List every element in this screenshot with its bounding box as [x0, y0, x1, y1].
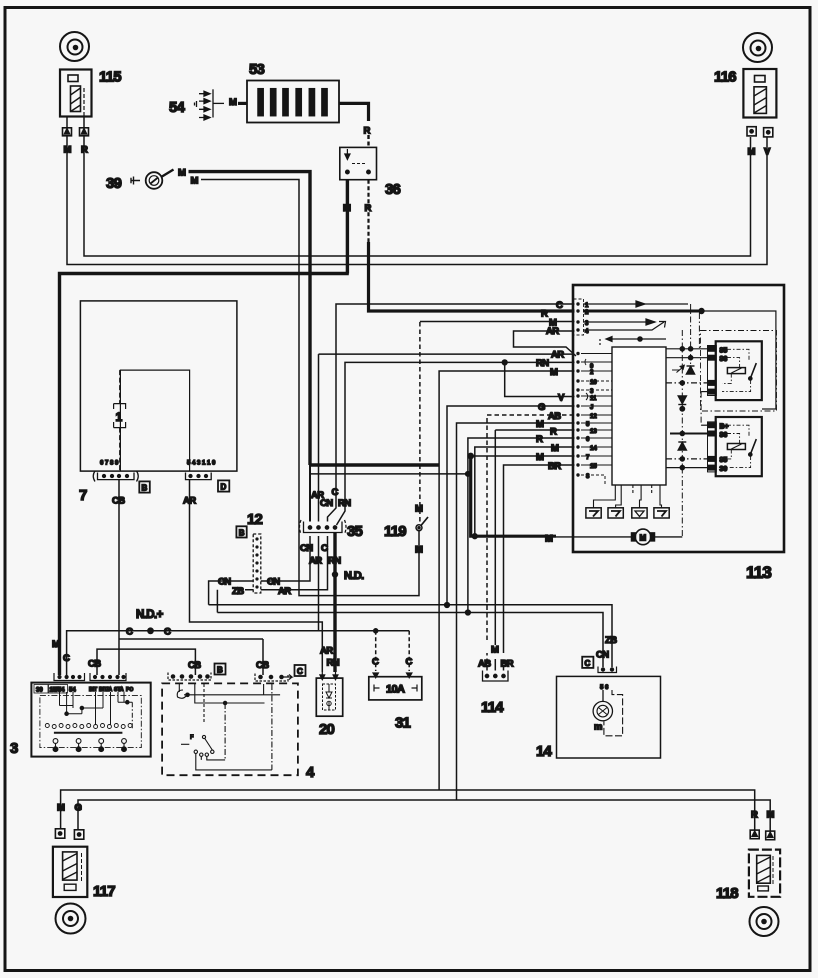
113 internal dash verticals: [682, 304, 701, 537]
multi-arrow symbol 54: [195, 89, 214, 120]
svg-text:CN: CN: [320, 498, 333, 509]
svg-text:RN: RN: [328, 556, 341, 567]
relay 2 pins: [708, 422, 717, 472]
lamp 116: [743, 69, 776, 118]
svg-text:M: M: [491, 645, 499, 656]
connector bracket 3pin C on 4: [255, 674, 292, 682]
wire 35 pin2 up to 113 AR input: [319, 354, 575, 521]
letter box D: [218, 480, 229, 491]
svg-text:86: 86: [720, 432, 728, 439]
svg-text:B: B: [217, 666, 223, 675]
IC bottom leads to sensors: [594, 485, 662, 508]
letter box C at 14: [582, 657, 593, 668]
svg-text:1: 1: [116, 410, 123, 424]
wire M into 53: [213, 102, 224, 104]
svg-text:N.D.+: N.D.+: [136, 609, 164, 621]
terminal labels inside 3: [34, 685, 68, 694]
svg-text:R: R: [751, 810, 758, 821]
inner notch of 7: [120, 370, 189, 471]
svg-text:117: 117: [93, 883, 115, 900]
svg-text:R: R: [550, 427, 557, 438]
113 input pins and numbers: [576, 302, 579, 476]
diode D1: [687, 366, 695, 374]
diode D2: [678, 442, 686, 450]
svg-text:53: 53: [249, 61, 265, 78]
svg-text:M: M: [229, 97, 237, 108]
connector pins under 115: [63, 128, 89, 136]
ignition switch 3: [31, 683, 150, 757]
pins into 31: [373, 673, 412, 678]
svg-text:M: M: [640, 534, 647, 543]
connector bracket 4pin on 3: [54, 673, 85, 681]
svg-text:M: M: [415, 504, 423, 515]
thick M456 wire to motor: [471, 455, 575, 457]
wire R430 to 114-M: [495, 429, 574, 431]
svg-text:M: M: [536, 452, 544, 463]
svg-text:AR: AR: [278, 586, 291, 597]
wire M322 to switch 119: [420, 321, 575, 323]
connector pins above 118: [750, 830, 775, 840]
svg-text:CB: CB: [256, 660, 269, 671]
pin arc marks: [585, 359, 588, 400]
svg-text:CB: CB: [88, 659, 101, 670]
wire 35 pin3 diagonal up to 113 C input: [328, 304, 575, 522]
svg-text:14: 14: [536, 743, 553, 760]
svg-text:3: 3: [10, 740, 18, 757]
corner screw top-left: [60, 32, 89, 61]
svg-text:85: 85: [720, 457, 728, 464]
svg-text:7: 7: [79, 487, 87, 504]
relay 2 in 113: [716, 417, 762, 476]
svg-text:PO: PO: [126, 687, 133, 693]
svg-text:RN: RN: [327, 658, 340, 669]
svg-text:D: D: [221, 483, 227, 492]
wire CN through 12 to 35 pin1: [209, 536, 310, 605]
corner screw bottom-left: [56, 904, 86, 934]
bottom bus wire 1: [61, 790, 755, 830]
wire 114-BR up to 113 BR: [504, 465, 575, 671]
svg-text:CN: CN: [300, 543, 313, 554]
connector pins above 117: [55, 829, 83, 839]
svg-text:C: C: [556, 300, 563, 311]
svg-text:35: 35: [347, 523, 363, 540]
svg-text:M: M: [536, 419, 544, 430]
wire 36-M thick down to main feed: [346, 180, 349, 274]
internals of 20: [323, 684, 336, 710]
svg-text:ZB: ZB: [232, 586, 244, 597]
svg-text:AR: AR: [551, 350, 564, 361]
svg-text:113: 113: [746, 563, 771, 582]
svg-text:AR: AR: [320, 646, 333, 657]
svg-text:C: C: [63, 653, 70, 664]
wire M371 to bus1: [439, 371, 574, 790]
svg-text:C: C: [164, 627, 171, 638]
heater motor 14: [557, 676, 661, 758]
svg-text:R: R: [541, 309, 548, 320]
svg-text:11: 11: [590, 396, 597, 402]
svg-text:C: C: [332, 487, 339, 498]
svg-text:STA: STA: [114, 687, 124, 693]
sensor boxes: [586, 508, 669, 518]
motor symbol in 14: [593, 690, 623, 736]
svg-text:30: 30: [720, 466, 728, 473]
svg-text:C: C: [585, 659, 591, 668]
svg-text:BR: BR: [548, 461, 561, 472]
svg-text:CN: CN: [218, 577, 231, 588]
letter box C above comp4: [295, 665, 306, 676]
svg-text:M: M: [550, 367, 558, 378]
svg-text:C: C: [126, 627, 133, 638]
connector 114: [483, 671, 509, 682]
svg-text:C: C: [321, 543, 328, 554]
svg-text:12: 12: [247, 511, 263, 528]
lamp 115: [60, 70, 92, 117]
letter box B above comp4: [215, 664, 226, 675]
svg-text:ZB: ZB: [605, 635, 617, 646]
svg-text:15/54: 15/54: [50, 688, 66, 694]
pins into 14: [598, 667, 617, 673]
connector bracket 5pin on 3: [90, 673, 126, 681]
wire pin1 riser of 35: [309, 465, 311, 522]
svg-text:39: 39: [106, 175, 122, 192]
svg-text:10A: 10A: [386, 684, 405, 696]
svg-text:36: 36: [385, 181, 401, 198]
svg-text:114: 114: [481, 699, 504, 716]
svg-text:30: 30: [36, 688, 43, 694]
wire AR from 7 down to 20-AR: [190, 480, 323, 672]
svg-text:CB: CB: [188, 660, 201, 671]
wire 115-R down and across to 116-V: [84, 117, 751, 257]
connector pins under 116: [747, 127, 773, 137]
svg-text:6 7 8 9: 6 7 8 9: [100, 461, 119, 467]
svg-text:31: 31: [395, 715, 411, 732]
svg-text:116: 116: [714, 69, 736, 86]
svg-text:B: B: [239, 529, 245, 538]
wire 114-M up to 113 M top: [494, 430, 496, 671]
113 wiring to relays: [666, 347, 708, 470]
wire CB from 7 down with branch to 4: [119, 480, 263, 675]
svg-text:86: 86: [720, 356, 728, 363]
svg-text:m: m: [594, 722, 602, 733]
corner screw bottom-right: [750, 907, 779, 936]
svg-text:N.D.: N.D.: [344, 570, 364, 582]
thick M bus link at y465: [310, 463, 439, 466]
node ND dot on thick RN wire: [332, 571, 338, 577]
svg-text:C: C: [372, 657, 379, 668]
relay 1 pins: [708, 346, 717, 396]
connector 36: [340, 147, 377, 179]
wire G406 to bus1: [447, 406, 575, 605]
bottom contacts in 3: [53, 739, 126, 752]
transistor arrow near D1: [672, 367, 683, 373]
wiper switch 4 dashed box: [162, 683, 298, 775]
svg-text:115: 115: [99, 69, 121, 86]
svg-text:F: F: [190, 735, 194, 741]
wire R438 down to CN line with y474 link: [310, 438, 575, 613]
wire C line across with drops to fuse 31 and rise to 35 pin2: [67, 536, 410, 675]
thin wire 39-M lower: down, to 119 M line: [201, 180, 419, 596]
113 internal top lines with arrows: [583, 301, 777, 411]
svg-text:5 6: 5 6: [600, 685, 609, 691]
diode unit 20: [316, 678, 342, 716]
thick RN wire 35-pin4 to 20: [333, 533, 336, 673]
thick wire 39-M down mid: [189, 172, 311, 465]
svg-text:C: C: [297, 667, 303, 676]
svg-text:M: M: [191, 176, 199, 187]
svg-text:G: G: [75, 803, 82, 814]
svg-text:AR: AR: [309, 556, 322, 567]
thick main feed wire from 36-M across and down left side to switch 3: [60, 274, 349, 676]
connector bracket D under 7: [186, 473, 212, 480]
wire M447 to ZB line: [475, 447, 575, 536]
pins into 20: [320, 672, 338, 680]
svg-text:118: 118: [716, 885, 738, 902]
svg-text:B: B: [142, 484, 148, 493]
svg-text:CN: CN: [596, 650, 609, 661]
thick wire 53 to 36: [339, 103, 369, 121]
bottom bus wire 2: [78, 800, 770, 831]
control unit 113 box: [573, 285, 784, 552]
wire AR331 loop back into 113: [514, 331, 577, 356]
svg-text:54: 54: [169, 99, 186, 116]
wire to 14 pin6 (ZB): [209, 605, 612, 667]
svg-text:M: M: [52, 639, 60, 650]
wire V396 up to R row: [505, 362, 575, 396]
wire ZB through 12 to 35 pin3: [245, 536, 328, 590]
inner dash box of 3: [40, 696, 141, 748]
wiper bar in 3: [54, 732, 123, 734]
letter box B: [139, 481, 150, 492]
svg-text:M: M: [551, 443, 559, 454]
svg-text:G: G: [538, 402, 545, 413]
svg-text:M: M: [415, 545, 423, 556]
svg-text:5 4 3 1 1 0: 5 4 3 1 1 0: [187, 461, 216, 467]
svg-text:RN: RN: [536, 358, 549, 369]
unit 7 box: [80, 301, 237, 471]
wire 119-M dashed up: [419, 322, 421, 522]
dashed group box around pins 1-4: [574, 299, 584, 335]
svg-text:AB: AB: [548, 411, 561, 422]
contact circles row in 3: [45, 724, 132, 729]
internals of 4: [177, 684, 280, 770]
svg-text:M: M: [178, 168, 186, 179]
wire 35 pin4 diagonal up to 113 RN input: [337, 362, 575, 525]
svg-text:AB: AB: [478, 659, 491, 670]
svg-text:C: C: [406, 657, 413, 668]
internals of 3: [60, 692, 133, 730]
svg-text:R: R: [536, 434, 543, 445]
wire 114-AB dashed up to 113 AB: [487, 415, 575, 671]
svg-text:M: M: [57, 803, 65, 814]
connector bracket 5pin B on 4: [168, 673, 211, 681]
svg-text:BR: BR: [501, 659, 514, 670]
wire 36-R down then right to 113 R input (thick): [367, 180, 369, 242]
svg-text:119: 119: [384, 523, 406, 540]
wire CB to comp3 and comp4-B: [97, 649, 195, 675]
lamp 117: [53, 847, 87, 897]
fuse 31: [369, 677, 422, 700]
fusebox 53: [247, 81, 339, 123]
wire M423 to CN line: [457, 423, 575, 800]
svg-text:B+: B+: [720, 424, 729, 431]
wire to 14 pin5 (CN): [217, 590, 603, 667]
svg-text:20: 20: [319, 721, 335, 738]
relay 1 in 113: [716, 341, 762, 400]
lamp 118: [749, 850, 780, 897]
svg-text:R: R: [364, 126, 371, 137]
connector bracket B under 7: [93, 471, 138, 482]
corner screw top-right: [743, 33, 772, 62]
svg-text:M: M: [748, 147, 756, 158]
svg-text:M: M: [767, 810, 775, 821]
wire 115-M down and across to 116-M: [67, 117, 767, 265]
IC block inside 113: [612, 347, 666, 485]
svg-text:85: 85: [720, 348, 728, 355]
pin stubs to IC: [581, 354, 612, 486]
element 1 in unit 7: [119, 370, 121, 471]
diode to ground Y: [678, 396, 686, 405]
